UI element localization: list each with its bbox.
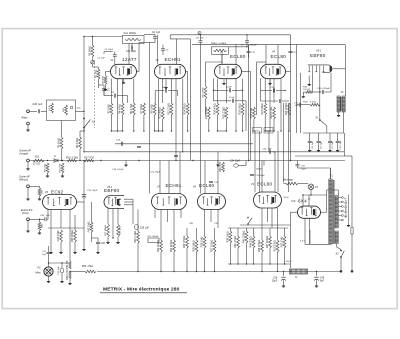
resistor R13 — [170, 103, 173, 115]
resistor — [214, 49, 227, 51]
junction — [83, 130, 84, 131]
capacitor — [130, 46, 132, 50]
wire — [261, 161, 263, 193]
wire — [168, 161, 170, 194]
wire — [50, 210, 52, 226]
capacitor C25 electrolytic — [82, 194, 86, 196]
wire — [264, 79, 266, 103]
resistor R21 — [264, 103, 267, 115]
triode EC92 V6 — [43, 195, 77, 210]
ground — [39, 198, 41, 199]
capacitor — [247, 50, 251, 52]
junction — [83, 118, 85, 120]
resistor R28 — [117, 224, 120, 237]
svg-text:R44 33kΩ: R44 33kΩ — [250, 236, 253, 247]
svg-text:R16 47kΩ: R16 47kΩ — [214, 103, 217, 114]
wire left vertical bus — [83, 37, 85, 153]
wire — [303, 194, 327, 196]
capacitor — [137, 145, 141, 147]
wire — [242, 115, 244, 131]
wire vertical interstage — [263, 161, 265, 166]
wire — [155, 90, 164, 92]
svg-text:R47 100kΩ: R47 100kΩ — [266, 236, 269, 249]
boxed level callout 2 — [264, 128, 273, 134]
wire — [125, 161, 127, 164]
wire — [40, 218, 45, 220]
wire — [221, 54, 223, 64]
wire — [99, 84, 105, 86]
wire — [246, 35, 248, 41]
junction — [62, 160, 63, 161]
wire — [98, 67, 100, 69]
capacitor C17b — [278, 99, 280, 103]
junction — [204, 271, 205, 272]
wire — [276, 90, 285, 92]
svg-text:R45 330kΩ: R45 330kΩ — [71, 230, 74, 243]
switch S2 lever — [320, 120, 327, 126]
svg-text:75Ω: 75Ω — [42, 190, 44, 194]
wire vertical interstage — [268, 131, 270, 152]
wire — [133, 79, 135, 103]
resistor R38 — [229, 231, 232, 243]
wire caps bank top — [303, 132, 344, 134]
resistor R34 — [186, 236, 189, 248]
capacitor C35 — [44, 217, 46, 221]
ground — [338, 114, 340, 115]
wire — [225, 119, 227, 131]
wire jog line — [170, 38, 190, 40]
resistor R11 — [33, 159, 44, 162]
wire vertical — [149, 43, 151, 194]
svg-text:1μF: 1μF — [42, 254, 46, 256]
junction — [39, 219, 40, 220]
wire — [261, 208, 263, 228]
EBF80 electrode — [312, 66, 314, 76]
resistor R9 — [153, 103, 156, 115]
wire V3 loop left — [205, 62, 207, 86]
svg-text:R50: R50 — [82, 266, 87, 268]
resistor R45 — [74, 230, 77, 242]
resistor R50 — [85, 270, 96, 273]
resistor R10 — [67, 159, 77, 162]
ground — [318, 149, 320, 150]
wire — [61, 273, 63, 280]
svg-text:METRIX - Mire électronique 280: METRIX - Mire électronique 280 — [103, 287, 180, 293]
wire — [79, 131, 81, 137]
resistor P1 — [51, 103, 54, 113]
wire — [69, 279, 71, 282]
svg-text:50mV: 50mV — [254, 131, 260, 133]
wire plate exit right — [137, 71, 140, 73]
resistor R37 — [213, 240, 216, 252]
wire — [246, 243, 248, 264]
svg-text:C26: C26 — [101, 242, 106, 245]
capacitor C3 — [113, 94, 115, 98]
junction — [217, 130, 218, 131]
junction — [83, 36, 84, 37]
ground ECH81 cathode — [165, 86, 167, 87]
svg-text:8μF: 8μF — [320, 280, 325, 282]
wire — [316, 280, 318, 284]
junction — [235, 130, 236, 131]
wire — [322, 71, 324, 73]
junction — [248, 160, 249, 161]
wire — [267, 208, 269, 222]
potentiometer FREQ box — [212, 47, 229, 55]
ground — [97, 251, 99, 252]
resistor R48 — [69, 271, 71, 279]
wire — [261, 252, 263, 272]
resistor R15 — [207, 107, 210, 119]
svg-text:R39 4.7k: R39 4.7k — [219, 161, 222, 172]
wire — [337, 133, 339, 141]
wire — [57, 159, 59, 163]
resistor R16 — [216, 103, 219, 115]
wire — [348, 195, 350, 222]
wire — [110, 115, 112, 131]
transformer tap — [338, 210, 341, 212]
svg-text:R18 3.3kΩ: R18 3.3kΩ — [222, 107, 225, 119]
junction — [119, 199, 120, 200]
wire — [103, 88, 105, 96]
capacitor C28 — [37, 109, 39, 113]
wire — [302, 92, 304, 95]
wire — [305, 243, 310, 245]
junction — [319, 91, 320, 92]
svg-text:ECL80: ECL80 — [199, 183, 214, 188]
junction — [200, 34, 201, 35]
potentiometer P3 — [91, 61, 94, 64]
wire — [103, 85, 105, 89]
wire — [343, 112, 345, 133]
wire vertical — [248, 45, 250, 161]
resistor R23 — [310, 103, 320, 106]
wire — [187, 72, 189, 104]
ground — [217, 164, 219, 165]
resistor R20 — [253, 107, 256, 119]
capacitor — [250, 173, 254, 175]
wire caps bank bottom — [295, 155, 345, 157]
wire B+ down — [290, 212, 292, 268]
svg-text:R4 47kΩ: R4 47kΩ — [119, 104, 122, 114]
wire — [162, 119, 164, 131]
capacitor — [96, 241, 100, 243]
wire — [48, 276, 50, 280]
junction — [226, 130, 227, 131]
wire — [160, 228, 162, 240]
junction — [284, 90, 285, 91]
wire vertical — [269, 96, 271, 131]
wire — [117, 79, 119, 96]
mains prong left — [340, 270, 343, 273]
resistor R35 — [195, 240, 198, 252]
wire — [221, 54, 223, 63]
junction — [283, 271, 284, 272]
wire — [288, 115, 290, 131]
svg-text:R15 25kΩ: R15 25kΩ — [202, 87, 204, 97]
junction — [119, 204, 120, 205]
capacitor C2 — [102, 88, 106, 90]
resistor R5 — [60, 137, 63, 149]
svg-text:+ 250 V: + 250 V — [284, 261, 292, 263]
svg-text:50μF: 50μF — [272, 280, 278, 282]
terminal Sortie HF — [27, 185, 30, 188]
wire — [318, 133, 320, 141]
wire — [225, 79, 227, 103]
wire plate exit right — [186, 71, 188, 73]
wire junction tie — [218, 130, 227, 132]
svg-text:R35 56kΩ: R35 56kΩ — [193, 240, 196, 251]
wire — [50, 225, 52, 251]
wire — [41, 110, 47, 112]
wire — [39, 231, 41, 232]
triode-pentode ECL80 V3 — [215, 64, 242, 78]
svg-text:R43 1MΩ: R43 1MΩ — [57, 231, 60, 242]
wire — [327, 189, 339, 191]
junction — [143, 130, 144, 131]
wire EBF80 plate to T2 — [332, 68, 345, 70]
wire — [308, 199, 310, 206]
junction — [171, 130, 172, 131]
capacitor C1, — [308, 140, 312, 142]
wire — [325, 91, 331, 93]
wire — [27, 221, 29, 230]
resistor R42 — [90, 222, 93, 232]
junction — [290, 271, 291, 272]
wire — [351, 234, 353, 270]
resistor R15 — [46, 163, 49, 173]
wire — [205, 99, 207, 115]
wire — [93, 66, 99, 68]
junction — [308, 198, 309, 199]
junction — [265, 130, 266, 131]
wire — [204, 210, 206, 229]
wire — [177, 91, 179, 96]
wire vertical interstage — [277, 131, 279, 192]
resistor R53 — [286, 182, 298, 185]
wire — [214, 228, 216, 240]
wire vertical — [300, 73, 302, 133]
wire vertical — [182, 90, 184, 152]
svg-text:4.7kΩ: 4.7kΩ — [310, 101, 316, 103]
transformer tap — [338, 206, 341, 208]
junction — [290, 160, 291, 161]
junction — [247, 217, 249, 219]
capacitor — [245, 40, 249, 42]
resistor R52 — [283, 236, 286, 248]
triode-pentode ECL80 V9 — [254, 192, 282, 208]
wire — [61, 263, 63, 268]
capacitor C18 electrolytic — [281, 276, 286, 278]
svg-text:C34 10μF: C34 10μF — [230, 161, 241, 163]
wire — [69, 210, 71, 216]
wire — [137, 210, 139, 232]
wire — [206, 61, 223, 63]
lamp pilot P1 — [308, 184, 313, 189]
terminal ground jack — [27, 122, 30, 125]
ground — [62, 175, 64, 176]
junction — [138, 160, 139, 161]
wire — [27, 188, 29, 198]
svg-text:(Résid.): (Résid.) — [19, 178, 28, 181]
wire vertical — [296, 45, 298, 133]
svg-text:1500pF: 1500pF — [250, 45, 258, 47]
pot wiper — [70, 106, 73, 109]
wire vertical — [280, 96, 282, 131]
wire — [91, 202, 93, 222]
svg-text:6X4: 6X4 — [298, 199, 307, 204]
wire — [303, 91, 305, 93]
wire — [283, 280, 285, 284]
wire — [330, 73, 332, 92]
svg-text:R49 47k: R49 47k — [66, 260, 69, 270]
ground — [74, 251, 76, 252]
wire junction tie — [111, 130, 122, 132]
wire — [217, 161, 219, 164]
resistor R40 — [237, 236, 240, 248]
switch S3 lever — [341, 251, 344, 257]
wire top bus B — [192, 44, 346, 46]
junction — [277, 271, 278, 272]
wire mid bus 1 — [115, 143, 253, 145]
wire — [27, 162, 29, 167]
wire — [282, 100, 289, 102]
wire — [117, 237, 119, 241]
wire — [230, 228, 232, 231]
wire CAL to 12AT7 — [128, 44, 130, 64]
svg-text:130pF: 130pF — [256, 169, 263, 171]
transformer T1 primary winding — [329, 179, 333, 244]
wire cathode stub — [269, 80, 271, 83]
svg-text:R8 2.2kΩ: R8 2.2kΩ — [76, 138, 79, 149]
EBF80 electrode — [308, 66, 310, 72]
wire — [48, 246, 50, 252]
wire — [103, 52, 105, 54]
wire — [248, 53, 250, 58]
capacitor C11 — [272, 89, 274, 93]
wire — [92, 57, 94, 61]
svg-text:.1μF: .1μF — [294, 105, 299, 107]
ground — [69, 282, 71, 283]
wire — [39, 219, 41, 222]
svg-text:R48 1.5k: R48 1.5k — [66, 269, 69, 280]
svg-text:C36 1μF: C36 1μF — [140, 228, 149, 230]
junction — [83, 111, 84, 112]
wire — [97, 244, 99, 251]
wire — [128, 63, 130, 64]
wire — [160, 210, 162, 229]
wire — [127, 96, 129, 103]
svg-text:T1: T1 — [330, 174, 334, 178]
junction — [319, 119, 321, 121]
wire vertical interstage — [283, 103, 285, 183]
wire — [83, 228, 85, 248]
svg-text:R17 47Ω: R17 47Ω — [84, 156, 94, 159]
wire — [273, 79, 275, 103]
svg-text:R40 1.5kΩ: R40 1.5kΩ — [234, 236, 237, 248]
svg-text:C19, 100pF: C19, 100pF — [112, 169, 124, 171]
junction — [253, 263, 254, 264]
wire — [91, 61, 93, 63]
junction — [122, 130, 123, 131]
wire — [74, 215, 76, 230]
svg-text:C1, 1μF: C1, 1μF — [312, 140, 314, 148]
svg-text:R24 4.7kΩ: R24 4.7kΩ — [270, 107, 273, 119]
junction — [154, 130, 155, 131]
junction — [247, 223, 249, 225]
junction — [208, 130, 209, 131]
potentiometer CAL box — [123, 35, 145, 43]
resistor R51 — [276, 240, 279, 252]
wire — [169, 35, 171, 39]
junction — [182, 151, 183, 152]
ground — [107, 241, 109, 242]
capacitor — [268, 150, 270, 154]
wire top bus A — [170, 34, 290, 36]
wire — [154, 91, 156, 103]
wire mains right — [351, 156, 353, 227]
wire — [94, 60, 96, 128]
svg-text:ECL80: ECL80 — [230, 54, 246, 59]
svg-text:EBF80: EBF80 — [310, 53, 326, 58]
svg-text:C21, 50μF: C21, 50μF — [150, 172, 161, 174]
resistor R25 — [288, 103, 291, 115]
wire — [297, 166, 299, 168]
lamp Mire P2 — [44, 267, 53, 276]
wire — [162, 79, 164, 103]
junction — [158, 130, 159, 131]
ground — [117, 241, 119, 242]
wire — [217, 115, 219, 131]
capacitor — [120, 142, 122, 146]
wire — [175, 79, 177, 96]
wire — [143, 115, 145, 131]
wire — [131, 44, 133, 46]
wire — [277, 208, 279, 230]
wire — [117, 209, 119, 225]
potentiometer P1 box — [47, 100, 76, 121]
ground ECL80 V4 cathode — [269, 82, 271, 83]
wire — [326, 190, 328, 212]
wire — [301, 104, 310, 106]
wire EC92 plate — [77, 201, 85, 203]
wire — [122, 79, 124, 103]
EBF80 electrode — [319, 66, 321, 76]
svg-text:6,3 V: 6,3 V — [300, 241, 306, 243]
wire — [180, 210, 182, 219]
wire — [277, 45, 279, 65]
junction — [48, 262, 49, 263]
capacitor — [161, 48, 165, 50]
junction — [242, 130, 243, 131]
wire — [213, 79, 215, 101]
junction — [162, 130, 163, 131]
svg-text:R9 1MΩ: R9 1MΩ — [151, 104, 154, 113]
resistor R3 grid leak — [104, 76, 107, 85]
svg-text:R6 4.7kΩ: R6 4.7kΩ — [130, 104, 133, 115]
wire V4 loop left — [256, 62, 258, 115]
svg-text:(Image): (Image) — [20, 152, 29, 155]
wire — [139, 42, 155, 44]
terminal Entree BF — [27, 218, 30, 221]
resistor R36 — [203, 236, 206, 248]
wire — [110, 79, 112, 103]
junction — [111, 130, 112, 131]
wire — [61, 121, 63, 138]
svg-text:Allumage: Allumage — [283, 179, 294, 182]
wire — [173, 210, 175, 229]
svg-text:30 Ω: 30 Ω — [284, 197, 289, 199]
